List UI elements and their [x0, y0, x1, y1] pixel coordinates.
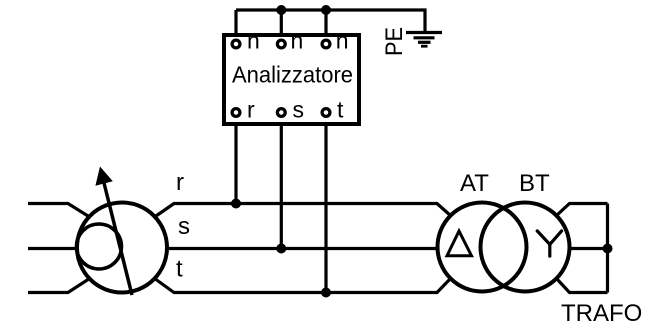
wire secondary s [570, 247, 608, 250]
svg-text:r: r [247, 97, 255, 123]
svg-text:AT: AT [460, 170, 489, 197]
wire t tap from analyzer [324, 113, 327, 293]
svg-text:n: n [247, 28, 260, 54]
wire secondary t [557, 279, 608, 293]
wire phase r middle [156, 204, 451, 217]
wye symbol [537, 231, 561, 256]
terminal t [322, 109, 330, 117]
svg-text:PE: PE [381, 27, 408, 56]
terminal n3 [322, 40, 330, 48]
transformer BT secondary circle [481, 203, 570, 292]
wire phase r left stub [28, 204, 88, 217]
op box U1 Analizzatore [224, 35, 359, 124]
wire phase s middle [168, 247, 437, 250]
wire phase t left stub [28, 280, 88, 293]
terminal n1 [232, 40, 240, 48]
junction on bus at drop 3 [321, 5, 331, 15]
terminal s [277, 109, 285, 117]
svg-text:s: s [178, 213, 190, 240]
junction r tap [231, 199, 241, 209]
terminal n2 [277, 40, 285, 48]
wire phase s left stub [28, 247, 76, 250]
wire neutral drop 1 [234, 10, 237, 44]
wire phase t middle [156, 279, 451, 293]
terminal r [232, 109, 240, 117]
svg-text:r: r [176, 169, 184, 196]
svg-text:n: n [336, 28, 349, 54]
variac T1 wiper arrow [102, 175, 132, 295]
svg-text:t: t [176, 256, 183, 283]
junction s tap [276, 244, 286, 254]
variac T1 outer circle [77, 203, 167, 293]
wire neutral drop 3 [324, 10, 327, 44]
svg-text:t: t [337, 97, 344, 123]
junction t tap [321, 288, 331, 298]
wire r tap from analyzer [234, 113, 237, 204]
wire secondary r [557, 204, 608, 216]
svg-text:n: n [291, 28, 304, 54]
svg-text:TRAFO: TRAFO [561, 300, 642, 327]
svg-text:Analizzatore: Analizzatore [232, 62, 353, 88]
svg-text:s: s [293, 97, 305, 123]
ground PE [406, 33, 442, 47]
wire neutral drop 2 [280, 10, 283, 44]
transformer AT primary circle [438, 203, 527, 292]
wire secondary vertical bus [606, 204, 609, 293]
variac T1 inner winding circle [77, 224, 122, 269]
wire s tap from analyzer [280, 113, 283, 249]
junction on bus at drop 2 [276, 5, 286, 15]
delta symbol [447, 231, 472, 256]
junction secondary neutral [603, 244, 613, 254]
svg-text:BT: BT [519, 170, 550, 197]
wire top neutral bus [236, 10, 425, 33]
